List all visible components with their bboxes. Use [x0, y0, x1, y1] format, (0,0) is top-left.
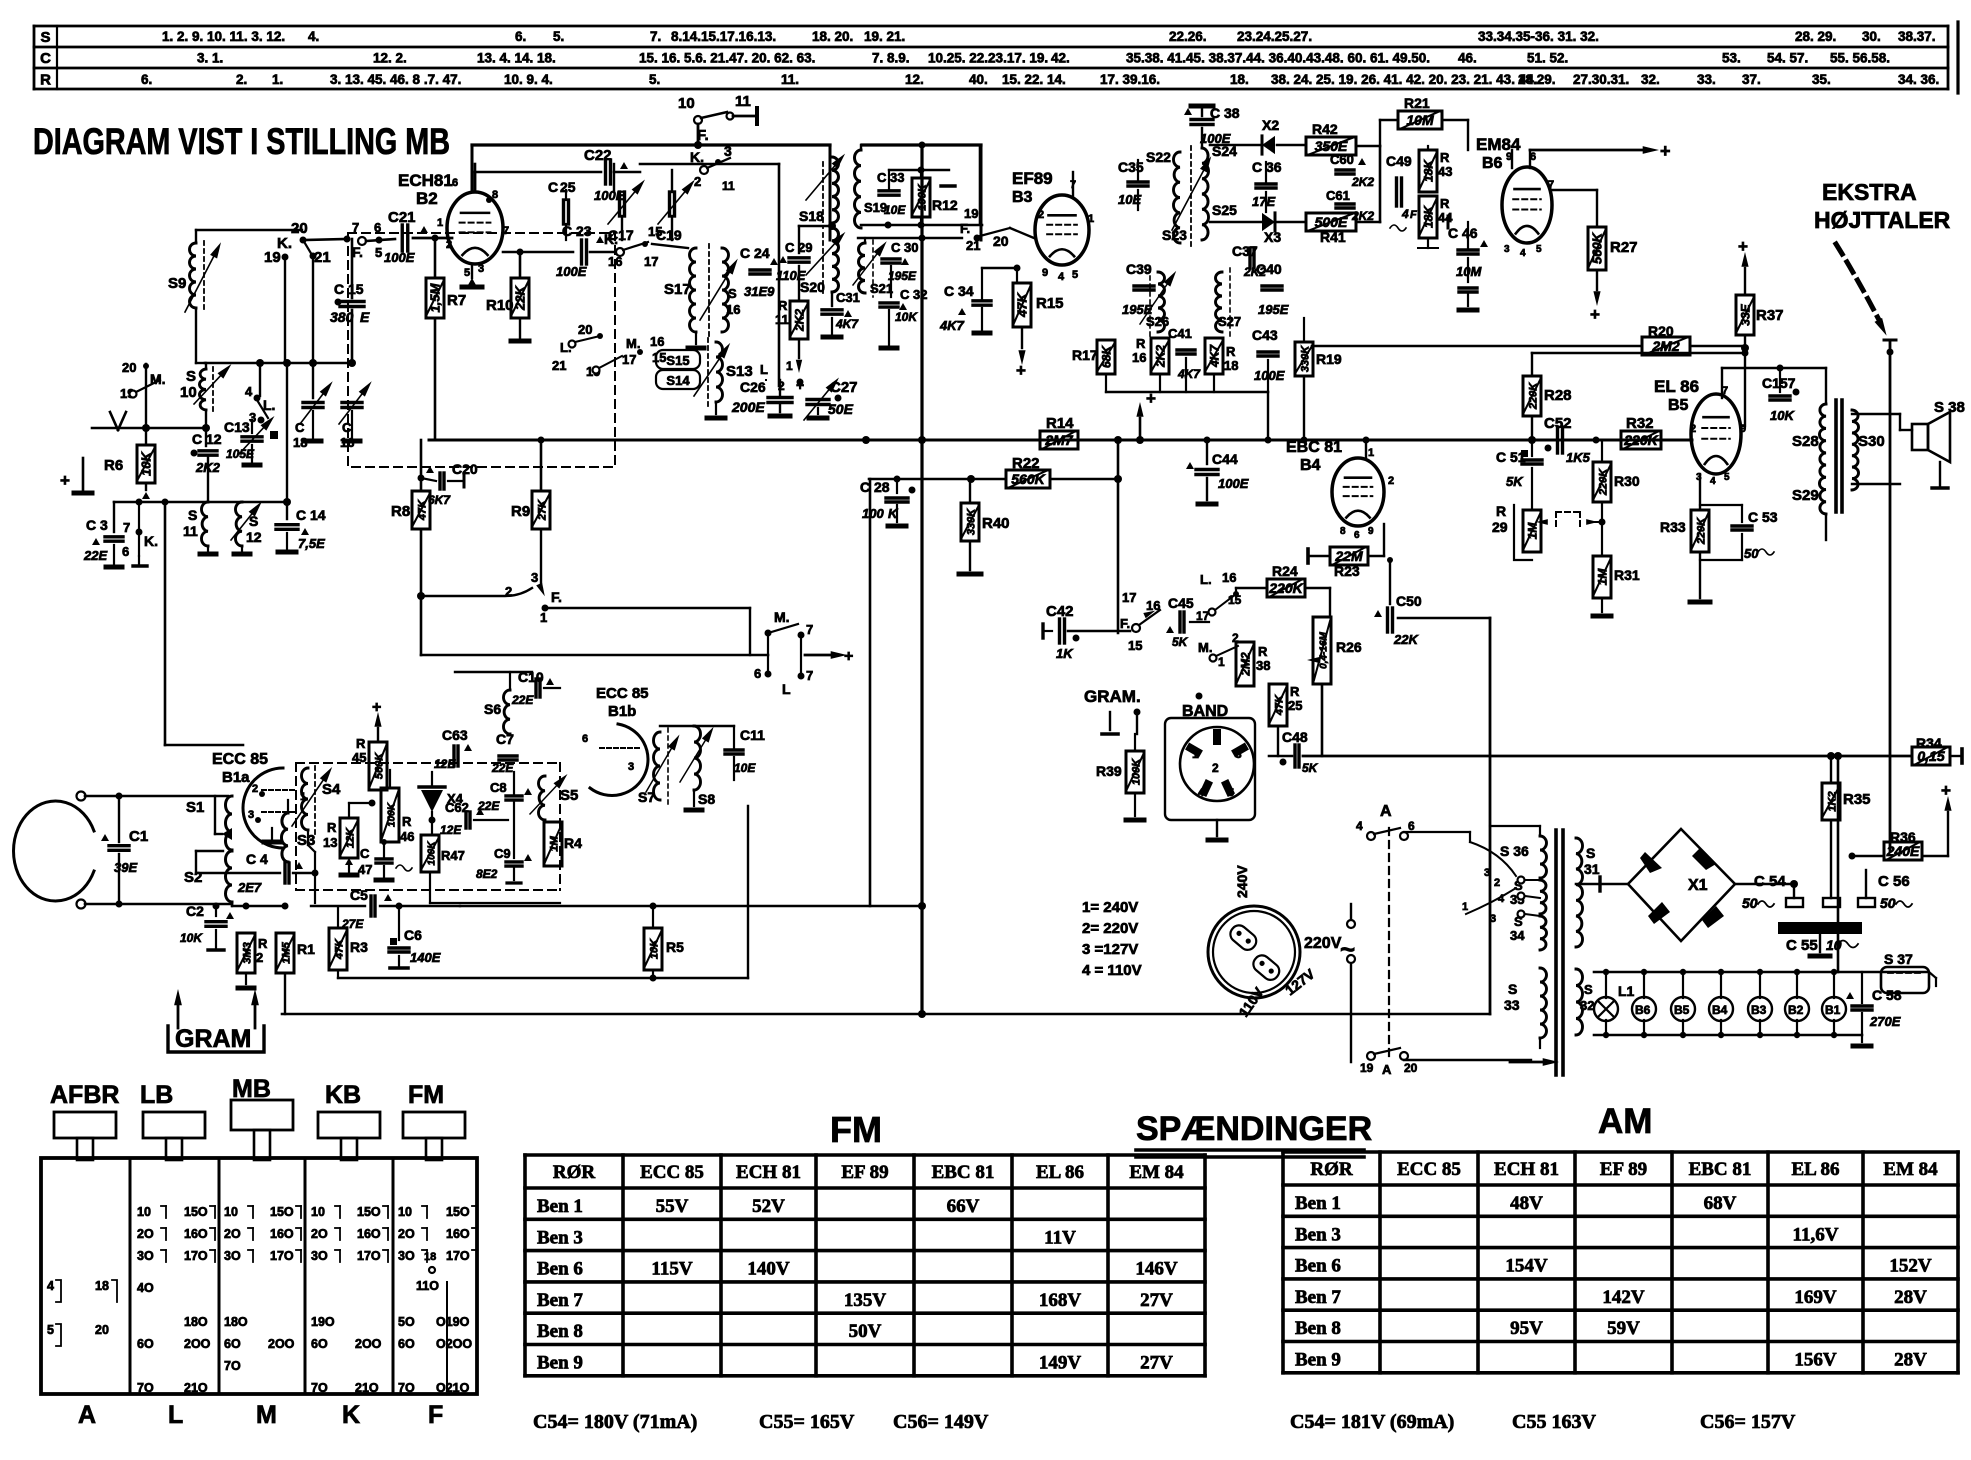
svg-text:45: 45 — [352, 750, 366, 765]
svg-text:38. 24. 25. 19. 26. 41. 42. 20: 38. 24. 25. 19. 26. 41. 42. 20. 23. 21. … — [1271, 72, 1537, 87]
svg-text:48V: 48V — [1510, 1193, 1543, 1214]
svg-text:28V: 28V — [1894, 1350, 1927, 1371]
svg-text:R: R — [778, 298, 788, 313]
svg-text:6: 6 — [1354, 530, 1360, 541]
svg-text:S 38: S 38 — [1934, 399, 1965, 416]
svg-text:R14: R14 — [1046, 415, 1074, 432]
svg-text:Ben 3: Ben 3 — [537, 1227, 583, 1248]
svg-text:B5: B5 — [1674, 1003, 1690, 1017]
svg-text:140V: 140V — [747, 1259, 790, 1280]
svg-text:3: 3 — [628, 761, 634, 773]
svg-text:C6: C6 — [404, 927, 422, 943]
svg-text:100: 100 — [862, 506, 884, 521]
svg-text:B6: B6 — [1482, 155, 1503, 172]
svg-text:FM: FM — [830, 1109, 882, 1150]
svg-text:2: 2 — [1212, 761, 1219, 775]
svg-text:6O: 6O — [398, 1337, 415, 1351]
svg-text:19: 19 — [1360, 1061, 1374, 1075]
svg-text:8: 8 — [1340, 526, 1346, 537]
svg-text:2O: 2O — [224, 1227, 241, 1241]
svg-text:66V: 66V — [947, 1196, 980, 1217]
svg-text:4: 4 — [1356, 819, 1363, 833]
svg-text:11.: 11. — [781, 72, 799, 87]
svg-text:GRAM: GRAM — [175, 1025, 251, 1053]
svg-text:7O: 7O — [137, 1381, 154, 1395]
svg-text:11: 11 — [735, 93, 751, 110]
svg-text:10: 10 — [311, 1205, 325, 1219]
svg-text:+: + — [60, 471, 70, 490]
svg-text:3: 3 — [531, 570, 538, 585]
svg-text:5: 5 — [1228, 787, 1234, 799]
svg-text:28.29.: 28.29. — [1518, 72, 1556, 87]
svg-text:2: 2 — [256, 950, 263, 965]
svg-text:10: 10 — [678, 95, 695, 112]
svg-text:EM 84: EM 84 — [1129, 1162, 1184, 1183]
svg-text:220V: 220V — [1304, 935, 1342, 952]
svg-text:2E7: 2E7 — [237, 880, 262, 895]
svg-text:50: 50 — [1880, 895, 1896, 911]
svg-text:17O: 17O — [184, 1249, 208, 1263]
svg-text:38.37.: 38.37. — [1898, 29, 1936, 44]
svg-text:C 38: C 38 — [1210, 105, 1240, 121]
svg-text:115V: 115V — [651, 1259, 692, 1280]
svg-text:46: 46 — [1462, 225, 1478, 241]
svg-text:27K: 27K — [537, 499, 549, 521]
svg-text:4K7: 4K7 — [1177, 367, 1201, 381]
svg-text:27V: 27V — [1140, 1353, 1173, 1374]
svg-text:5.: 5. — [649, 72, 660, 87]
svg-text:4.: 4. — [308, 29, 319, 44]
svg-text:Ben 6: Ben 6 — [1295, 1256, 1341, 1277]
svg-text:C63: C63 — [442, 727, 468, 743]
svg-text:C 34: C 34 — [944, 283, 974, 299]
svg-text:4K7: 4K7 — [939, 318, 965, 333]
svg-text:R36: R36 — [1890, 829, 1916, 845]
svg-text:ECC 85: ECC 85 — [1397, 1159, 1461, 1180]
svg-text:R: R — [402, 814, 412, 829]
svg-text:11V: 11V — [1044, 1227, 1076, 1248]
svg-text:15: 15 — [1128, 638, 1142, 653]
svg-text:21O: 21O — [355, 1381, 379, 1395]
svg-text:2O: 2O — [137, 1227, 154, 1241]
svg-text:10M: 10M — [1456, 264, 1482, 279]
svg-text:22K: 22K — [1393, 632, 1419, 647]
svg-text:10: 10 — [137, 1205, 151, 1219]
svg-text:22.26.: 22.26. — [1169, 29, 1207, 44]
svg-text:18: 18 — [424, 1251, 436, 1263]
svg-text:A: A — [1380, 803, 1392, 820]
svg-text:7: 7 — [806, 622, 813, 637]
svg-text:S3: S3 — [297, 832, 315, 849]
svg-text:5: 5 — [464, 267, 470, 279]
svg-text:5: 5 — [1536, 244, 1542, 255]
svg-text:13: 13 — [323, 835, 337, 850]
svg-text:S22: S22 — [1146, 149, 1171, 165]
svg-text:R15: R15 — [1036, 295, 1064, 312]
svg-text:B5: B5 — [1668, 397, 1689, 414]
svg-text:C 58: C 58 — [1872, 987, 1902, 1003]
svg-text:4 = 110V: 4 = 110V — [1082, 962, 1142, 979]
svg-text:15. 22. 14.: 15. 22. 14. — [1002, 72, 1066, 87]
svg-text:0,4-16M: 0,4-16M — [1319, 631, 1330, 668]
svg-text:C5: C5 — [350, 887, 368, 903]
svg-text:17O: 17O — [357, 1249, 381, 1263]
svg-text:17. 39.16.: 17. 39.16. — [1100, 72, 1160, 87]
svg-text:31: 31 — [1584, 861, 1600, 877]
svg-text:2= 220V: 2= 220V — [1082, 920, 1138, 937]
svg-text:C52: C52 — [1544, 415, 1572, 432]
svg-text:4: 4 — [1198, 787, 1205, 799]
svg-text:M.: M. — [626, 336, 640, 351]
svg-text:B4: B4 — [1300, 457, 1321, 474]
svg-text:S: S — [188, 507, 197, 523]
svg-text:240V: 240V — [1234, 865, 1250, 898]
svg-text:A: A — [78, 1401, 96, 1429]
svg-text:S: S — [40, 29, 50, 46]
svg-text:51. 52.: 51. 52. — [1527, 51, 1568, 66]
svg-text:1K5: 1K5 — [1566, 450, 1591, 465]
svg-text:142V: 142V — [1602, 1287, 1645, 1308]
svg-text:C41: C41 — [1168, 326, 1192, 341]
svg-text:135V: 135V — [844, 1290, 887, 1311]
svg-text:152V: 152V — [1889, 1256, 1932, 1277]
svg-text:C49: C49 — [1386, 153, 1412, 169]
svg-text:1: 1 — [1192, 747, 1199, 761]
svg-text:52V: 52V — [752, 1196, 785, 1217]
svg-text:DIAGRAM VIST I STILLING MB: DIAGRAM VIST I STILLING MB — [33, 121, 450, 162]
svg-text:27V: 27V — [1140, 1290, 1173, 1311]
svg-text:C 28: C 28 — [860, 479, 890, 495]
svg-text:M.: M. — [1198, 640, 1212, 655]
svg-text:28. 29.: 28. 29. — [1795, 29, 1836, 44]
svg-text:12E: 12E — [440, 823, 462, 837]
svg-text:10E: 10E — [734, 761, 756, 775]
svg-text:32.: 32. — [1641, 72, 1660, 87]
svg-text:5O: 5O — [398, 1315, 415, 1329]
svg-text:17E: 17E — [1252, 194, 1275, 209]
svg-text:12. 2.: 12. 2. — [373, 51, 407, 66]
svg-text:RØR: RØR — [553, 1162, 596, 1183]
svg-text:ECH 81: ECH 81 — [736, 1162, 801, 1183]
svg-text:C61: C61 — [1326, 188, 1350, 203]
svg-text:B1: B1 — [1825, 1003, 1841, 1017]
svg-text:C50: C50 — [1396, 593, 1422, 609]
svg-text:L.: L. — [1200, 572, 1212, 587]
svg-text:380: 380 — [330, 309, 354, 325]
svg-text:R40: R40 — [982, 515, 1010, 532]
svg-text:C48: C48 — [1282, 729, 1308, 745]
svg-text:C42: C42 — [1046, 603, 1074, 620]
svg-text:R4: R4 — [564, 835, 582, 851]
svg-text:4: 4 — [1401, 207, 1409, 221]
svg-text:+: + — [372, 699, 381, 716]
svg-text:C9: C9 — [494, 846, 511, 861]
svg-text:C21: C21 — [388, 209, 416, 226]
svg-text:2: 2 — [694, 174, 701, 189]
svg-text:C40: C40 — [1256, 261, 1282, 277]
svg-text:R20: R20 — [1648, 323, 1674, 339]
svg-text:15O: 15O — [270, 1205, 294, 1219]
svg-text:S 37: S 37 — [1884, 951, 1913, 967]
svg-text:ECH 81: ECH 81 — [1494, 1159, 1559, 1180]
svg-text:1K: 1K — [1056, 646, 1074, 661]
svg-text:R3: R3 — [350, 939, 368, 955]
svg-text:S17: S17 — [664, 281, 691, 298]
svg-text:EL 86: EL 86 — [1654, 377, 1699, 396]
svg-text:S23: S23 — [1162, 227, 1187, 243]
svg-text:Ben 7: Ben 7 — [537, 1290, 583, 1311]
svg-text:M.: M. — [774, 609, 790, 625]
svg-text:4: 4 — [1058, 271, 1065, 283]
svg-text:17O: 17O — [270, 1249, 294, 1263]
svg-text:19. 21.: 19. 21. — [864, 29, 905, 44]
svg-text:34: 34 — [1510, 928, 1525, 943]
svg-text:C: C — [562, 223, 572, 239]
svg-text:R39: R39 — [1096, 763, 1122, 779]
svg-text:C55= 165V: C55= 165V — [759, 1411, 855, 1433]
svg-text:25: 25 — [1288, 698, 1302, 713]
svg-text:10.25. 22.23.17. 19.: 10.25. 22.23.17. 19. — [928, 51, 1048, 66]
svg-text:47K: 47K — [417, 499, 429, 521]
svg-text:+: + — [1016, 361, 1026, 380]
svg-text:+: + — [1590, 305, 1600, 324]
svg-text:19: 19 — [964, 206, 978, 221]
svg-text:3. 1.: 3. 1. — [197, 51, 223, 66]
svg-text:2O: 2O — [398, 1227, 415, 1241]
svg-text:21: 21 — [552, 358, 566, 373]
svg-text:1: 1 — [1368, 447, 1374, 459]
svg-text:16O: 16O — [270, 1227, 294, 1241]
svg-text:B3: B3 — [1751, 1003, 1767, 1017]
svg-text:EF 89: EF 89 — [1600, 1159, 1647, 1180]
svg-text:+: + — [796, 377, 804, 393]
svg-text:4: 4 — [1520, 248, 1526, 259]
svg-text:X1: X1 — [1688, 877, 1708, 894]
svg-text:R22: R22 — [1012, 455, 1040, 472]
svg-text:B2: B2 — [416, 189, 438, 208]
svg-text:195E: 195E — [1258, 302, 1289, 317]
svg-text:11: 11 — [183, 523, 198, 539]
svg-text:R: R — [1440, 150, 1450, 165]
svg-text:B4: B4 — [1712, 1003, 1728, 1017]
svg-text:39E: 39E — [114, 860, 137, 875]
svg-text:EL 86: EL 86 — [1036, 1162, 1084, 1183]
svg-text:20: 20 — [291, 220, 308, 237]
svg-text:KB: KB — [325, 1081, 361, 1109]
svg-text:R33: R33 — [1660, 519, 1686, 535]
svg-text:M: M — [256, 1401, 277, 1429]
svg-text:Ben 1: Ben 1 — [1295, 1193, 1341, 1214]
svg-text:L: L — [760, 362, 768, 377]
svg-text:C11: C11 — [740, 727, 765, 743]
svg-text:C8: C8 — [490, 780, 507, 795]
svg-text:18: 18 — [1224, 358, 1238, 373]
svg-text:EL 86: EL 86 — [1791, 1159, 1839, 1180]
svg-text:21: 21 — [314, 249, 331, 266]
svg-text:17O: 17O — [446, 1249, 470, 1263]
svg-text:30: 30 — [904, 240, 918, 255]
svg-text:6.: 6. — [515, 29, 526, 44]
svg-text:ECH81: ECH81 — [398, 171, 453, 190]
svg-text:2K2: 2K2 — [1351, 209, 1374, 223]
svg-text:10K: 10K — [895, 310, 918, 324]
svg-text:X2: X2 — [1262, 117, 1279, 133]
svg-text:C56= 157V: C56= 157V — [1700, 1411, 1796, 1433]
svg-text:C35: C35 — [1118, 159, 1144, 175]
svg-text:22E: 22E — [511, 693, 534, 707]
svg-text:AM: AM — [1598, 1102, 1652, 1141]
svg-text:7: 7 — [806, 668, 813, 683]
svg-text:16: 16 — [1132, 350, 1146, 365]
svg-text:Ben 7: Ben 7 — [1295, 1287, 1341, 1308]
svg-text:19O: 19O — [311, 1315, 335, 1329]
svg-text:5.: 5. — [553, 29, 564, 44]
svg-text:54. 57.: 54. 57. — [1767, 51, 1808, 66]
svg-text:12: 12 — [246, 529, 262, 545]
svg-text:25: 25 — [560, 179, 576, 195]
svg-text:S27: S27 — [1218, 314, 1241, 329]
svg-text:7. 8.9.: 7. 8.9. — [872, 51, 910, 66]
svg-text:FM: FM — [408, 1081, 444, 1109]
svg-text:HØJTTALER: HØJTTALER — [1814, 207, 1951, 233]
svg-text:K.: K. — [690, 149, 704, 165]
svg-text:40.: 40. — [969, 72, 988, 87]
svg-text:R: R — [327, 820, 337, 835]
svg-text:C: C — [877, 170, 887, 185]
svg-text:33.34.35-36. 31. 32.: 33.34.35-36. 31. 32. — [1478, 29, 1599, 44]
svg-text:18: 18 — [95, 1279, 109, 1293]
svg-text:+: + — [1738, 237, 1748, 256]
svg-text:3: 3 — [724, 143, 732, 159]
svg-text:AFBR: AFBR — [50, 1081, 119, 1109]
svg-text:R: R — [356, 736, 366, 751]
svg-text:18. 20.: 18. 20. — [812, 29, 853, 44]
svg-text:R5: R5 — [666, 939, 684, 955]
svg-text:C: C — [548, 179, 558, 195]
svg-text:21O: 21O — [184, 1381, 208, 1395]
svg-text:12E: 12E — [434, 757, 456, 771]
svg-text:105E: 105E — [226, 447, 255, 461]
svg-text:168V: 168V — [1039, 1290, 1082, 1311]
svg-text:C: C — [740, 245, 750, 261]
svg-text:EM84: EM84 — [1476, 135, 1521, 154]
svg-text:29: 29 — [798, 240, 812, 255]
svg-text:43: 43 — [1438, 164, 1452, 179]
svg-text:C 14: C 14 — [296, 507, 326, 523]
svg-text:S: S — [728, 286, 737, 301]
svg-text:47: 47 — [358, 862, 372, 877]
svg-text:R27: R27 — [1610, 239, 1638, 256]
svg-text:R9: R9 — [511, 503, 530, 520]
svg-text:B1b: B1b — [608, 703, 636, 720]
svg-text:5K: 5K — [1302, 761, 1319, 775]
svg-text:S13: S13 — [726, 363, 753, 380]
svg-text:R: R — [40, 72, 51, 89]
svg-text:L1: L1 — [1618, 983, 1635, 999]
svg-text:100E: 100E — [1254, 368, 1285, 383]
svg-text:R7: R7 — [447, 292, 466, 309]
svg-text:S18: S18 — [799, 208, 824, 224]
svg-text:K.: K. — [144, 533, 158, 549]
svg-text:R19: R19 — [1316, 351, 1342, 367]
svg-text:1: 1 — [540, 610, 547, 625]
svg-text:S: S — [249, 513, 258, 529]
svg-text:55. 56.58.: 55. 56.58. — [1830, 51, 1890, 66]
svg-text:S25: S25 — [1212, 202, 1237, 218]
svg-text:4: 4 — [245, 384, 253, 399]
svg-text:C2: C2 — [186, 903, 204, 919]
svg-text:2: 2 — [1038, 209, 1044, 221]
svg-text:S21: S21 — [870, 281, 893, 296]
svg-text:7.: 7. — [650, 29, 661, 44]
svg-text:C45: C45 — [1168, 595, 1194, 611]
svg-text:C 55: C 55 — [1786, 937, 1818, 954]
svg-text:C55 163V: C55 163V — [1512, 1411, 1596, 1433]
svg-text:S: S — [1586, 845, 1595, 861]
svg-text:6.: 6. — [141, 72, 152, 87]
svg-text:18O: 18O — [184, 1315, 208, 1329]
svg-text:F.: F. — [551, 589, 562, 605]
svg-text:R24: R24 — [1272, 563, 1298, 579]
svg-text:15. 16. 5.6. 21.47. 20. 62. 6: 15. 16. 5.6. 21.47. 20. 62. 63. — [639, 51, 815, 66]
svg-text:200E: 200E — [731, 399, 765, 415]
svg-text:X3: X3 — [1264, 229, 1281, 245]
svg-text:20: 20 — [1404, 1061, 1418, 1075]
svg-text:R37: R37 — [1756, 307, 1784, 324]
svg-text:3: 3 — [1235, 747, 1242, 761]
svg-text:R: R — [1290, 684, 1300, 699]
svg-text:2OO: 2OO — [355, 1337, 382, 1351]
svg-text:46: 46 — [400, 829, 414, 844]
svg-text:R: R — [1136, 336, 1146, 351]
svg-text:16O: 16O — [357, 1227, 381, 1241]
svg-text:110E: 110E — [776, 268, 806, 283]
svg-text:F.: F. — [352, 244, 363, 260]
svg-text:8E2: 8E2 — [476, 867, 498, 881]
svg-text:16O: 16O — [184, 1227, 208, 1241]
svg-text:3: 3 — [1490, 913, 1496, 925]
svg-text:RØR: RØR — [1310, 1159, 1353, 1180]
svg-text:5: 5 — [1072, 269, 1078, 281]
svg-text:Ben 9: Ben 9 — [537, 1353, 583, 1374]
svg-text:53.: 53. — [1722, 51, 1741, 66]
svg-text:38: 38 — [1256, 658, 1270, 673]
svg-text:S 36: S 36 — [1500, 843, 1529, 859]
svg-text:29: 29 — [1492, 519, 1508, 535]
svg-text:18.: 18. — [1230, 72, 1249, 87]
svg-text:16: 16 — [726, 302, 740, 317]
svg-text:195E: 195E — [888, 269, 917, 283]
svg-text:C60: C60 — [1330, 152, 1354, 167]
svg-text:C26: C26 — [740, 379, 766, 395]
svg-text:2: 2 — [446, 239, 452, 251]
svg-text:11,6V: 11,6V — [1793, 1224, 1839, 1245]
svg-text:5K: 5K — [1172, 635, 1189, 649]
svg-text:32: 32 — [1580, 998, 1594, 1013]
svg-text:C44: C44 — [1212, 451, 1238, 467]
svg-text:4K7: 4K7 — [835, 317, 859, 331]
svg-text:2OO: 2OO — [268, 1337, 295, 1351]
svg-text:F.: F. — [960, 221, 970, 236]
svg-text:ECC 85: ECC 85 — [640, 1162, 704, 1183]
svg-text:5: 5 — [47, 1323, 54, 1337]
svg-text:C 3: C 3 — [86, 517, 108, 533]
svg-text:149V: 149V — [1039, 1353, 1082, 1374]
svg-text:S26: S26 — [1146, 314, 1169, 329]
svg-text:11: 11 — [722, 179, 735, 193]
svg-text:100E: 100E — [384, 250, 415, 265]
svg-text:B6: B6 — [1635, 1003, 1651, 1017]
